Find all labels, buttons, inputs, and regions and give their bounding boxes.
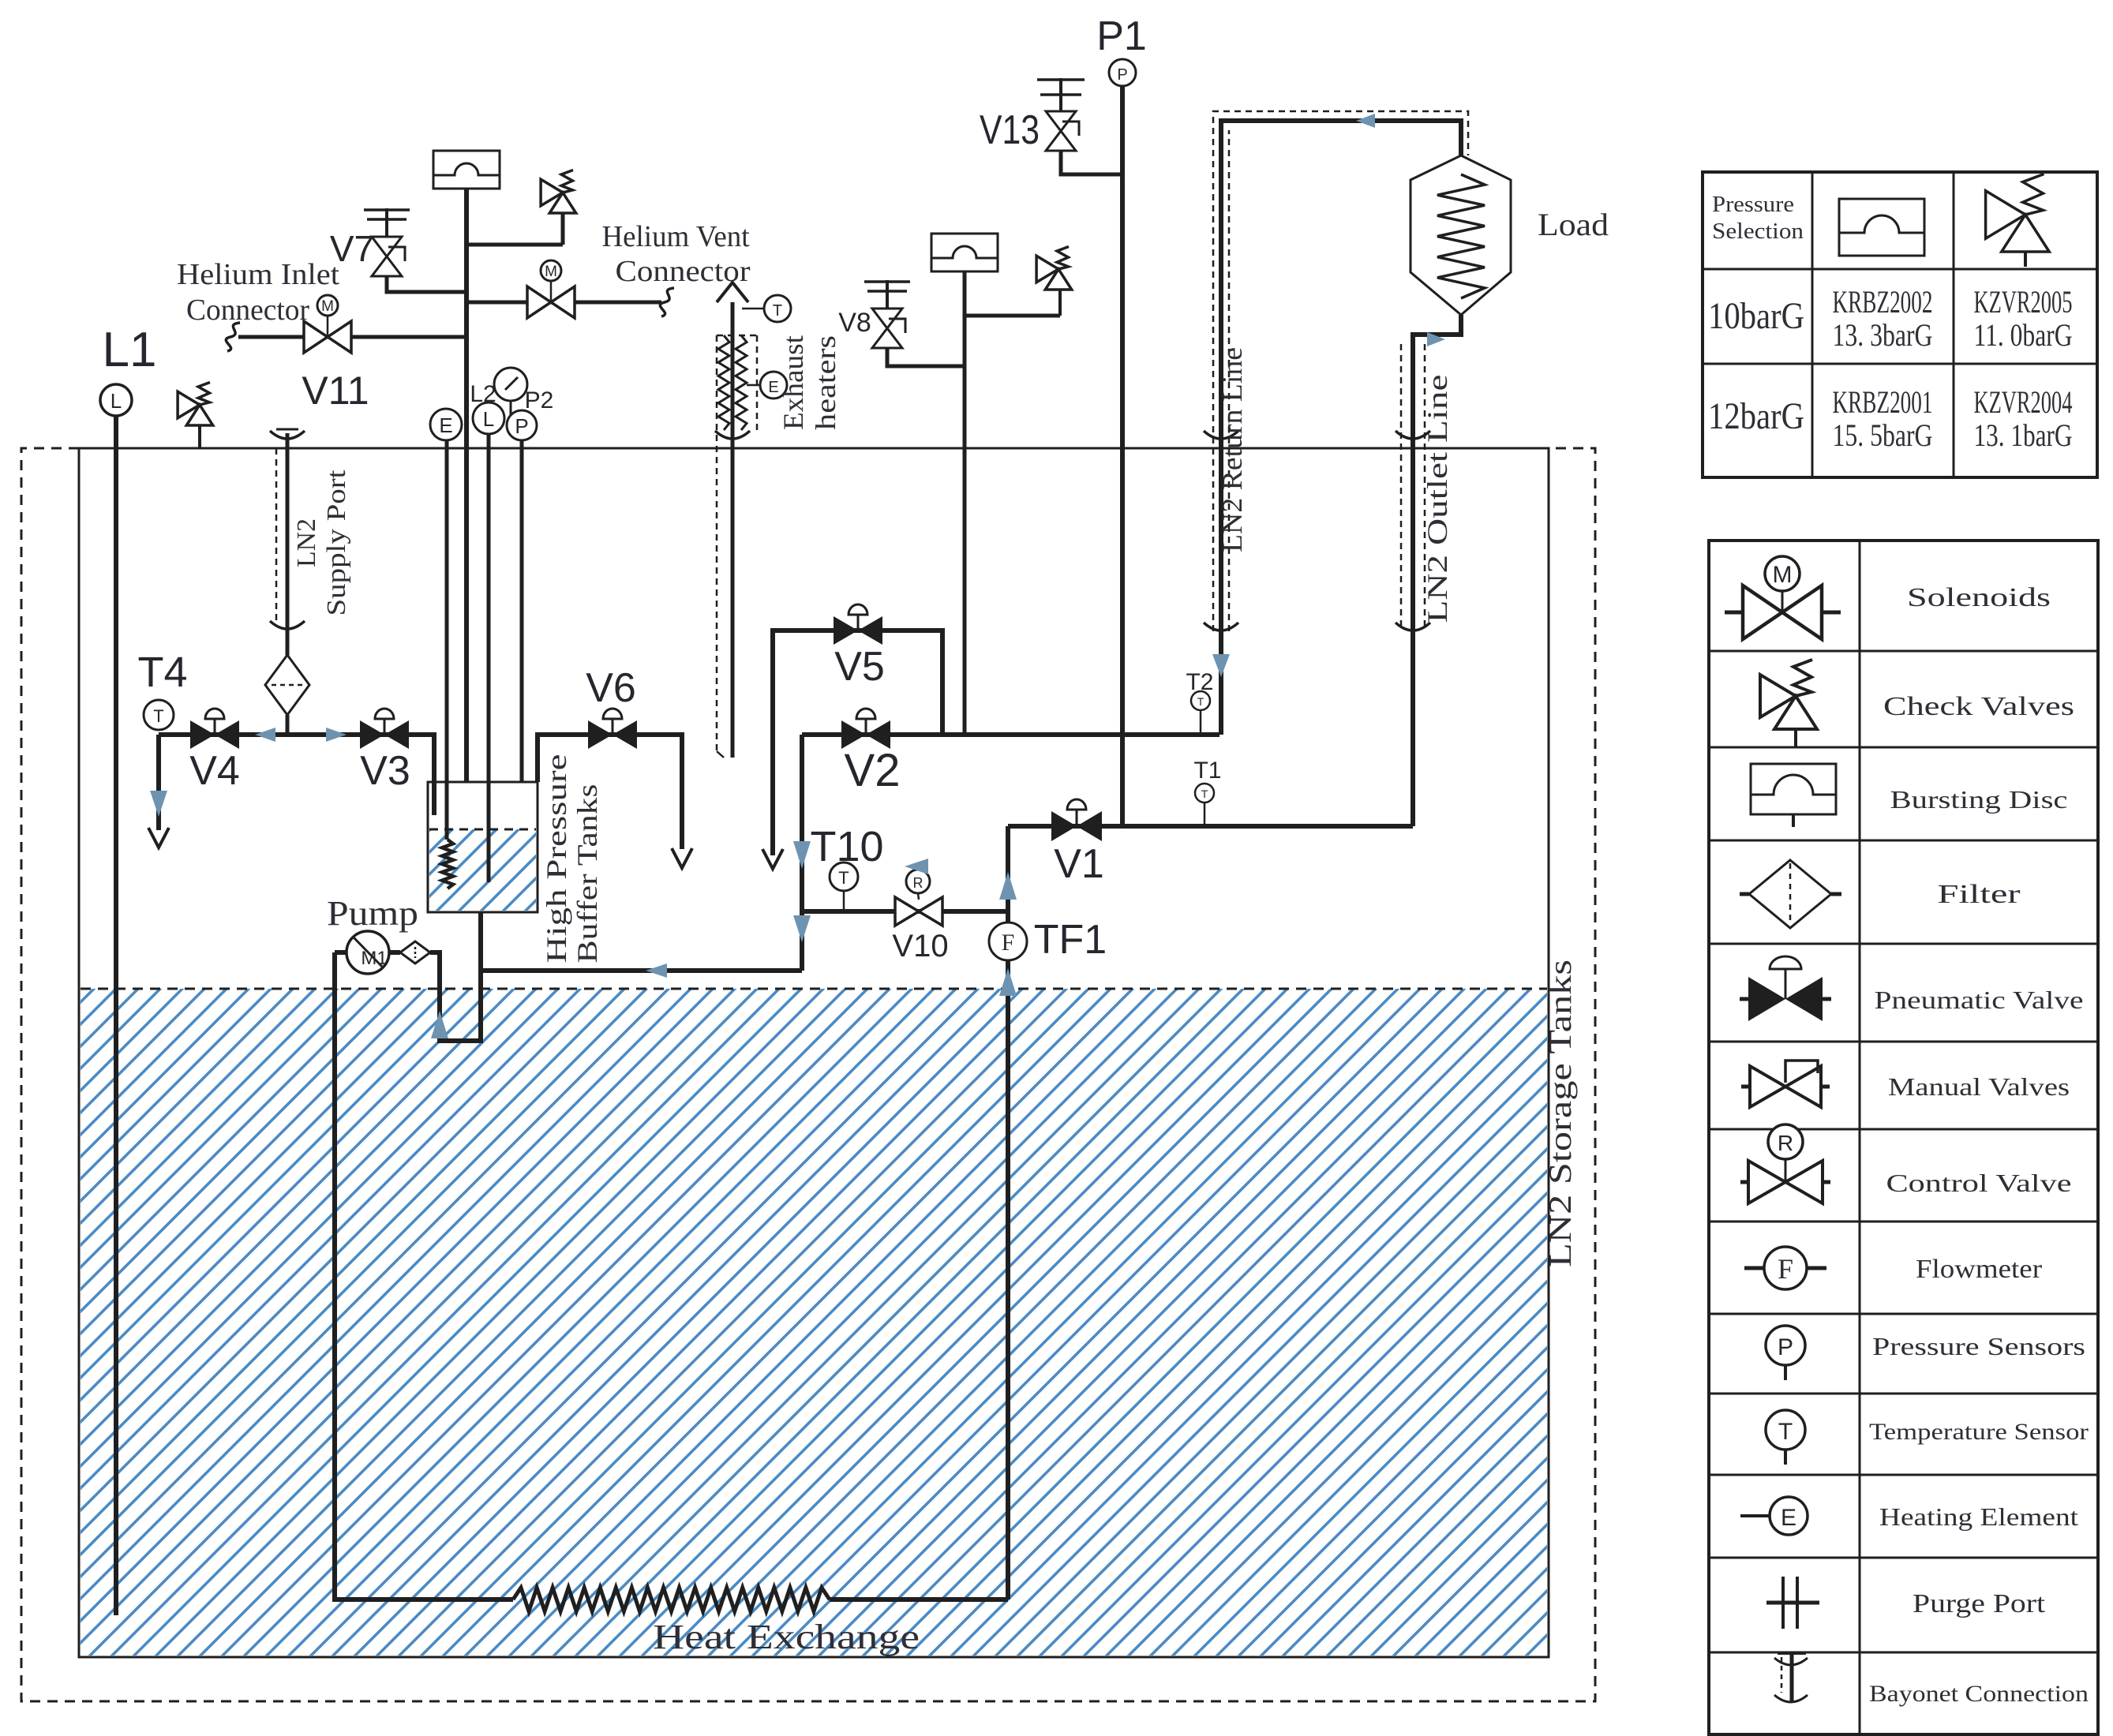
svg-text:KZVR2004: KZVR2004 bbox=[1974, 384, 2073, 420]
svg-text:Pressure Sensors: Pressure Sensors bbox=[1872, 1332, 2085, 1360]
svg-text:Control Valve: Control Valve bbox=[1886, 1169, 2072, 1197]
svg-text:Check Valves: Check Valves bbox=[1883, 692, 2074, 721]
svg-text:Bayonet Connection: Bayonet Connection bbox=[1869, 1681, 2089, 1707]
svg-text:10barG: 10barG bbox=[1708, 295, 1804, 337]
svg-text:M: M bbox=[1773, 562, 1793, 588]
svg-text:P1: P1 bbox=[1096, 13, 1147, 59]
svg-text:12barG: 12barG bbox=[1708, 395, 1804, 437]
svg-text:Flowmeter: Flowmeter bbox=[1916, 1255, 2043, 1284]
svg-text:V10: V10 bbox=[892, 929, 948, 963]
svg-text:LN2: LN2 bbox=[292, 518, 321, 567]
svg-text:Pneumatic Valve: Pneumatic Valve bbox=[1875, 986, 2084, 1014]
svg-text:P: P bbox=[1117, 66, 1127, 84]
svg-text:V5: V5 bbox=[834, 644, 885, 690]
svg-text:Connector: Connector bbox=[186, 294, 309, 327]
svg-text:L1: L1 bbox=[103, 323, 157, 377]
svg-text:KRBZ2002: KRBZ2002 bbox=[1833, 284, 1933, 320]
svg-text:TF1: TF1 bbox=[1034, 917, 1107, 963]
svg-text:Load: Load bbox=[1538, 207, 1609, 242]
svg-text:13. 1barG: 13. 1barG bbox=[1974, 417, 2073, 453]
svg-text:15. 5barG: 15. 5barG bbox=[1833, 417, 1933, 453]
svg-text:Purge Port: Purge Port bbox=[1913, 1589, 2046, 1618]
svg-text:Solenoids: Solenoids bbox=[1907, 583, 2051, 612]
svg-text:Heating Element: Heating Element bbox=[1879, 1502, 2078, 1531]
svg-text:T: T bbox=[153, 706, 163, 726]
svg-text:Selection: Selection bbox=[1712, 219, 1804, 244]
svg-text:V8: V8 bbox=[838, 308, 871, 338]
svg-text:R: R bbox=[1778, 1131, 1793, 1155]
svg-text:F: F bbox=[1778, 1253, 1793, 1285]
svg-text:Helium Vent: Helium Vent bbox=[602, 220, 750, 253]
svg-text:Buffer Tanks: Buffer Tanks bbox=[571, 784, 603, 963]
svg-text:LN2 Storage Tanks: LN2 Storage Tanks bbox=[1542, 960, 1578, 1267]
svg-text:Pressure: Pressure bbox=[1712, 193, 1794, 217]
svg-text:T2: T2 bbox=[1186, 669, 1213, 695]
svg-text:F: F bbox=[1002, 930, 1015, 956]
svg-text:T1: T1 bbox=[1193, 758, 1221, 784]
svg-text:V13: V13 bbox=[980, 107, 1040, 153]
svg-text:V3: V3 bbox=[360, 748, 410, 794]
svg-text:P: P bbox=[515, 414, 528, 438]
svg-text:V11: V11 bbox=[302, 369, 369, 413]
svg-text:T10: T10 bbox=[810, 823, 883, 870]
svg-text:L: L bbox=[483, 407, 494, 431]
svg-text:M1: M1 bbox=[361, 948, 387, 969]
svg-text:M: M bbox=[545, 264, 557, 280]
svg-text:KRBZ2001: KRBZ2001 bbox=[1833, 384, 1933, 420]
svg-text:T: T bbox=[1197, 695, 1204, 708]
svg-text:M: M bbox=[321, 298, 334, 315]
svg-text:Helium Inlet: Helium Inlet bbox=[177, 258, 339, 291]
svg-text:Heat Exchange: Heat Exchange bbox=[653, 1618, 920, 1656]
svg-text:V2: V2 bbox=[845, 745, 901, 796]
svg-text:High Pressure: High Pressure bbox=[541, 754, 572, 963]
svg-text:heaters: heaters bbox=[810, 335, 841, 430]
svg-text:L: L bbox=[111, 389, 122, 413]
svg-text:Exhaust: Exhaust bbox=[777, 335, 809, 430]
svg-text:11. 0barG: 11. 0barG bbox=[1974, 317, 2073, 353]
svg-text:E: E bbox=[439, 413, 452, 437]
svg-text:Temperature Sensor: Temperature Sensor bbox=[1869, 1419, 2089, 1445]
svg-text:V4: V4 bbox=[189, 748, 240, 794]
svg-text:E: E bbox=[1781, 1505, 1796, 1531]
svg-text:T: T bbox=[773, 302, 782, 320]
svg-text:Filter: Filter bbox=[1938, 880, 2021, 909]
svg-text:P2: P2 bbox=[525, 387, 554, 413]
svg-text:LN2 Outlet Line: LN2 Outlet Line bbox=[1422, 375, 1453, 623]
svg-text:Pump: Pump bbox=[327, 894, 418, 933]
svg-text:V1: V1 bbox=[1054, 841, 1104, 887]
svg-text:R: R bbox=[913, 875, 924, 891]
svg-text:LN2 Return Line: LN2 Return Line bbox=[1216, 347, 1248, 552]
svg-text:T: T bbox=[838, 868, 849, 888]
svg-text:Supply Port: Supply Port bbox=[322, 470, 351, 616]
svg-text:Manual Valves: Manual Valves bbox=[1888, 1072, 2070, 1101]
svg-text:T4: T4 bbox=[137, 649, 187, 696]
svg-text:KZVR2005: KZVR2005 bbox=[1974, 284, 2073, 320]
svg-text:L2: L2 bbox=[470, 381, 496, 407]
svg-text:V6: V6 bbox=[586, 665, 636, 711]
svg-text:Bursting Disc: Bursting Disc bbox=[1890, 785, 2068, 814]
svg-text:P: P bbox=[1778, 1334, 1793, 1360]
svg-text:T: T bbox=[1778, 1419, 1793, 1445]
svg-text:T: T bbox=[1201, 788, 1208, 800]
svg-text:13. 3barG: 13. 3barG bbox=[1833, 317, 1933, 353]
